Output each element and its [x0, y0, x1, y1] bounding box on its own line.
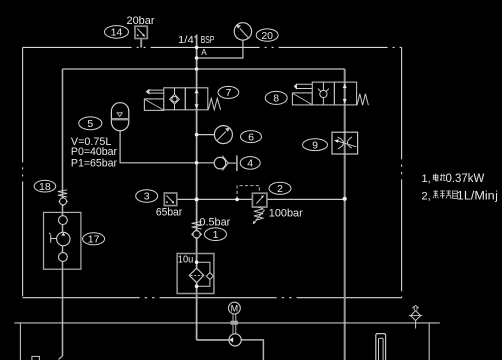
wire: pump suction horizontal — [197, 339, 230, 341]
pressure switch S14 drop line — [140, 39, 142, 48]
svg-text:j: j — [494, 190, 498, 202]
solenoid valve 8 : solenoid box — [292, 93, 312, 105]
balloon 18 — [34, 180, 56, 193]
svg-text:1/4’: 1/4’ — [178, 35, 196, 46]
air breather — [409, 305, 423, 328]
svg-text:0.37kW: 0.37kW — [446, 173, 485, 185]
node: relief pilot tee — [235, 198, 239, 202]
hand pump 17 upper check — [59, 216, 68, 225]
check valve 4 — [214, 155, 237, 171]
wire: hand pump line bottom hook — [59, 356, 63, 360]
solenoid valve 7 : right position box (through flow) — [185, 88, 208, 110]
relief valve 2 pilot (dashed) — [237, 186, 259, 200]
svg-text:1,: 1, — [422, 173, 431, 185]
pressure gauge 6 — [214, 126, 232, 144]
svg-text:P1=65bar: P1=65bar — [71, 158, 118, 170]
node: tank header crossing — [195, 67, 199, 71]
note line 2: 2,system flow 1L/Min — [422, 190, 498, 202]
svg-text:A: A — [201, 48, 207, 57]
svg-text:17: 17 — [88, 234, 100, 246]
filter element — [189, 268, 204, 283]
node: relief header tee — [195, 197, 199, 201]
wire: pump discharge to tank strainer — [241, 340, 263, 360]
svg-text:6: 6 — [248, 131, 254, 143]
svg-text:2,: 2, — [422, 190, 431, 202]
wire: upper tank header y=69 — [63, 68, 345, 70]
balloon 2 — [269, 182, 291, 195]
note line 1: 1,motor 0.37kW — [422, 173, 485, 185]
wire: return line x=344.7 — [344, 69, 346, 360]
balloon 4 — [240, 157, 260, 170]
filter bypass piping — [197, 262, 210, 272]
svg-text:1: 1 — [213, 229, 219, 241]
accumulator 5 — [111, 103, 128, 131]
svg-text:1L/Min: 1L/Min — [457, 190, 495, 202]
electric motor M — [229, 302, 241, 314]
relief valve 2 adjust arrow — [253, 210, 265, 225]
svg-text:4: 4 — [247, 158, 253, 170]
svg-text:14: 14 — [111, 27, 123, 39]
node: filter bottom — [195, 285, 199, 289]
wire: gauge6 tee — [197, 134, 215, 136]
solenoid valve 8 : pilot arrow — [294, 83, 313, 89]
svg-text:18: 18 — [39, 181, 51, 193]
hand pump 17 lower check — [59, 253, 68, 262]
enclosure boundary (dash-dot) top — [23, 46, 402, 48]
balloon 20 — [256, 29, 278, 42]
check valve 18 poppet — [59, 197, 67, 205]
tank right wall — [428, 323, 430, 360]
pressure gauge 20 — [234, 23, 251, 40]
svg-text:8: 8 — [273, 93, 279, 105]
wire: hand pump riser x=62.5 — [62, 69, 64, 356]
wire: accumulator branch — [120, 131, 197, 163]
shaft coupling — [231, 321, 239, 325]
node: gauge6 tee — [195, 133, 199, 137]
balloon 5 — [79, 117, 102, 130]
pressure switch 14 — [135, 26, 147, 38]
svg-text:20bar: 20bar — [127, 15, 155, 27]
check valve 1 spring — [192, 221, 202, 229]
balloon 14 — [105, 26, 129, 39]
svg-text:0.5bar: 0.5bar — [199, 217, 230, 229]
balloon 7 — [218, 86, 239, 99]
pressure switch 3 — [164, 193, 177, 206]
solenoid valve 7 : pilot arrow — [146, 89, 164, 95]
wire: check4 branch — [197, 162, 215, 164]
svg-text:9: 9 — [312, 139, 318, 151]
enclosure boundary right — [401, 47, 403, 297]
balloon 17 — [83, 233, 105, 246]
svg-text:65bar: 65bar — [156, 207, 183, 219]
tank left wall — [19, 323, 21, 360]
balloon 9 — [303, 139, 328, 152]
hand pump 17 pump circle — [49, 232, 70, 245]
filter bypass check — [206, 273, 213, 280]
node: return junction — [343, 197, 347, 201]
svg-text:20: 20 — [261, 30, 273, 42]
svg-text:M: M — [231, 304, 239, 314]
svg-text:5: 5 — [87, 118, 93, 130]
svg-text:2: 2 — [277, 183, 283, 195]
node: gauge20 tee — [195, 56, 199, 60]
svg-text:3: 3 — [144, 191, 150, 203]
svg-text:BSP: BSP — [201, 35, 215, 46]
svg-text:10u: 10u — [178, 253, 194, 265]
oil level gauge — [376, 334, 386, 360]
motor shaft — [233, 314, 236, 334]
solenoid valve 7 : left position box (check) — [164, 88, 186, 110]
check valve 18 spring — [58, 190, 67, 197]
enclosure boundary bottom — [23, 297, 402, 299]
node: accumulator tee — [195, 161, 199, 165]
solenoid valve 7 : solenoid box — [144, 99, 163, 111]
balloon 8 — [265, 91, 287, 104]
relief valve 2 body — [252, 193, 267, 207]
node: port A junction — [195, 46, 199, 50]
svg-text:100bar: 100bar — [269, 208, 303, 220]
solenoid valve 8 : left position box (check) — [312, 82, 334, 105]
balloon 1 — [205, 228, 227, 241]
hand pump 17 box — [44, 212, 81, 269]
tank top line — [14, 322, 440, 324]
tank accessory (bottom-left, clipped) — [32, 356, 40, 360]
solenoid valve 8 : right position box (through flow) — [334, 82, 356, 105]
pressure switch 3 balloon — [136, 190, 158, 203]
flow control valve 9 — [332, 132, 358, 154]
wire: gauge20 stem — [197, 40, 243, 58]
relief valve 2 spring — [254, 207, 263, 220]
solenoid valve 7 : spring — [208, 98, 220, 110]
wire: main pressure line x=196.6 — [196, 35, 198, 341]
svg-text:P0=40bar: P0=40bar — [71, 146, 118, 158]
check valve 1 poppet — [192, 229, 202, 239]
balloon 6 — [241, 131, 262, 144]
solenoid valve 8 : spring — [357, 94, 368, 106]
enclosure boundary left — [22, 47, 24, 297]
node: filter top — [195, 260, 199, 264]
main pump — [229, 334, 241, 346]
filter 10u box — [177, 254, 214, 294]
svg-text:7: 7 — [225, 87, 231, 99]
wire: relief header y=199.4 — [177, 198, 345, 200]
